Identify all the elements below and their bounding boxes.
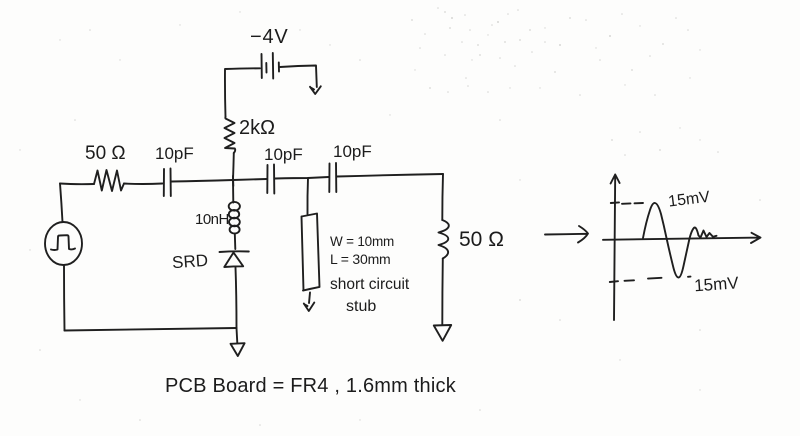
capacitor C1 10pF right plate (170, 169, 172, 197)
wire: bottom rail stub to main ground (236, 328, 239, 343)
diode D1 SRD triangle (anode pointing up) (224, 253, 243, 268)
capacitor C1 10pF left plate (163, 169, 165, 196)
capacitor C3 10pF left plate (328, 164, 330, 193)
waveform: ringing pulse (643, 203, 717, 278)
wire: vertical from node A up to 2k resistor (232, 153, 235, 180)
ground: stub ground arrow (304, 303, 315, 312)
wire: stub tap down from rail (306, 178, 309, 214)
dashed level -15mV (625, 277, 691, 281)
pulse glyph inside source (51, 235, 75, 250)
capacitor C2 10pF right plate (273, 165, 275, 194)
graph vertical axis (611, 175, 620, 321)
wire: pulse source bottom to bottom rail (63, 266, 66, 331)
capacitor C2 10pF left plate (266, 165, 268, 193)
wire: pulse source top connection (left vertical) (60, 184, 63, 223)
diode D1 SRD cathode bar (220, 250, 249, 253)
wire: stub bottom to its ground (309, 293, 310, 304)
svg-text:10pF: 10pF (155, 144, 194, 163)
inductor L1 10nH (vertical coil) (229, 180, 240, 249)
svg-text:SRD: SRD (171, 251, 208, 272)
svg-text:2kΩ: 2kΩ (239, 117, 275, 139)
svg-text:10pF: 10pF (264, 145, 303, 164)
graph tick +15mV on vertical axis (611, 201, 619, 204)
resistor R3 50 ohm load (vertical) (439, 220, 449, 259)
wire: rail from node A to C2 (233, 179, 267, 180)
resistor R2 2k ohm (vertical) (225, 117, 236, 153)
svg-text:50 Ω: 50 Ω (459, 228, 504, 251)
ground: load ground arrow (open triangle) (434, 325, 451, 341)
arrow: implies output waveform (545, 226, 588, 243)
transmission-line stub (short circuit stub rectangle) (302, 214, 320, 291)
pulse generator source symbol circle (45, 222, 82, 265)
battery B1 -4V: long plate 1 (261, 54, 263, 78)
battery B1: long plate 2 (272, 53, 274, 79)
svg-text:W = 10mm: W = 10mm (330, 234, 394, 249)
battery B1: short plate 2 (278, 63, 280, 72)
svg-text:15mV: 15mV (694, 273, 740, 295)
svg-text:10pF: 10pF (333, 142, 372, 161)
svg-text:50 Ω: 50 Ω (85, 143, 126, 164)
graph horizontal axis (603, 233, 761, 243)
wire: top rail left segment from pulse source corner to 50-ohm resistor (60, 183, 94, 186)
svg-text:10nH: 10nH (195, 211, 229, 228)
resistor R1 50 ohm (series, horizontal) (94, 170, 124, 191)
wire: rail from C3 to right corner (337, 174, 443, 177)
svg-text:short circuit: short circuit (330, 276, 410, 293)
wire: rail between C1 and node A (172, 180, 234, 182)
battery B1: short plate 1 (265, 63, 267, 73)
svg-text:L = 30mm: L = 30mm (330, 251, 391, 267)
wire: from battery to its ground corner (280, 66, 317, 88)
wire: rail from C2 past stub tap to C3 (275, 177, 329, 179)
svg-text:PCB Board = FR4 , 1.6mm thi: PCB Board = FR4 , 1.6mm thick (165, 375, 457, 397)
dashed level +15mV (622, 202, 643, 205)
wire: bottom rail (65, 328, 237, 331)
svg-text:−4V: −4V (250, 26, 289, 48)
ground: main ground arrow bottom middle (231, 343, 245, 356)
node A junction (bias/inductor tap) (232, 176, 234, 186)
svg-text:15mV: 15mV (667, 189, 711, 211)
wire: rail between R1 and C1 (124, 183, 163, 186)
wire: load resistor to ground (441, 259, 444, 326)
wire: diode anode down to bottom rail (236, 268, 237, 329)
capacitor C3 10pF right plate (335, 163, 337, 192)
svg-text:stub: stub (346, 298, 376, 315)
graph tick -15mV on vertical axis (610, 280, 618, 283)
wire: vertical from 2k resistor up to battery level then to battery (225, 68, 260, 117)
wire: right corner down to load resistor (441, 174, 444, 220)
ground: battery ground arrow (310, 86, 321, 94)
